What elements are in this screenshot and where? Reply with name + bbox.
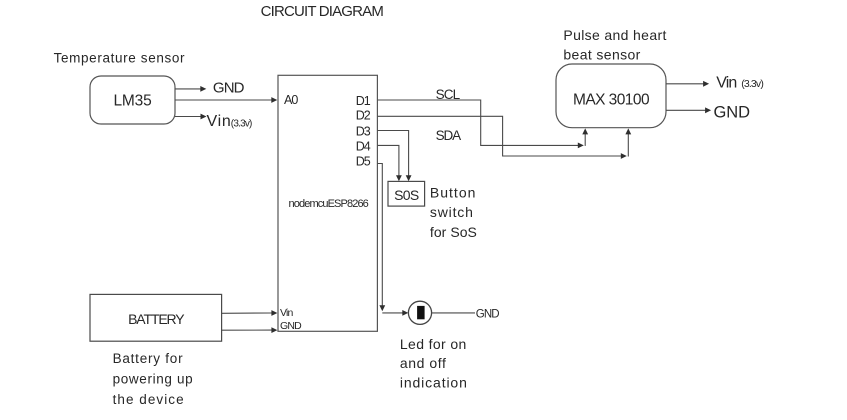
svg-text:A0: A0 bbox=[284, 93, 298, 107]
pin D2 bbox=[356, 108, 371, 122]
svg-text:Button: Button bbox=[430, 185, 477, 201]
svg-text:GND: GND bbox=[280, 320, 302, 332]
label Pulse and heart beat sensor bbox=[563, 27, 666, 62]
svg-text:and off: and off bbox=[400, 355, 447, 371]
mcu nodemcuESP8266 box bbox=[278, 75, 377, 331]
wire D3 to SOS bbox=[377, 131, 411, 182]
label Vin(3.3v) (LM35) bbox=[207, 113, 253, 130]
svg-text:D4: D4 bbox=[356, 139, 371, 153]
wire battery GND bbox=[222, 327, 278, 333]
battery BT1 bbox=[90, 294, 222, 341]
svg-text:Vin: Vin bbox=[207, 113, 232, 130]
svg-text:SCL: SCL bbox=[436, 87, 461, 102]
svg-text:(3.3v): (3.3v) bbox=[741, 78, 763, 90]
svg-text:GND: GND bbox=[213, 79, 245, 96]
wire LED to GND bbox=[432, 312, 475, 314]
pin A0 bbox=[284, 93, 298, 107]
pin D5 bbox=[356, 154, 371, 168]
svg-text:D3: D3 bbox=[356, 124, 371, 138]
svg-text:D2: D2 bbox=[356, 108, 371, 122]
svg-text:Temperature sensor: Temperature sensor bbox=[54, 51, 186, 66]
sensor MAX 30100 bbox=[556, 64, 666, 128]
switch SOS bbox=[388, 181, 425, 206]
svg-text:Vin: Vin bbox=[716, 74, 736, 91]
svg-text:SDA: SDA bbox=[436, 128, 462, 143]
svg-text:Vin: Vin bbox=[280, 307, 293, 319]
wire LM35 to A0 bbox=[175, 97, 277, 103]
wire D2 SDA to MAX30100 bbox=[377, 116, 631, 159]
label nodemcuESP8266 bbox=[289, 198, 369, 210]
svg-text:nodemcuESP8266: nodemcuESP8266 bbox=[289, 198, 369, 210]
label SDA bbox=[436, 128, 462, 143]
svg-text:Pulse and heart: Pulse and heart bbox=[563, 27, 666, 43]
wire MAX30100 Vin bbox=[666, 81, 709, 87]
label Button switch for SoS bbox=[430, 185, 477, 240]
svg-text:powering up: powering up bbox=[113, 372, 194, 387]
svg-text:switch: switch bbox=[430, 204, 474, 220]
svg-text:(3.3v): (3.3v) bbox=[231, 119, 252, 130]
svg-text:the device: the device bbox=[113, 392, 185, 407]
title CIRCUIT DIAGRAM bbox=[261, 3, 384, 20]
svg-text:Battery for: Battery for bbox=[113, 351, 184, 366]
label Battery for powering up the device bbox=[113, 351, 194, 407]
pin D4 bbox=[356, 139, 371, 153]
wire LM35 Vin bbox=[175, 114, 207, 120]
label GND (LED) bbox=[476, 309, 499, 321]
label Vin (3.3v) (MAX30100) bbox=[716, 74, 763, 91]
svg-text:S0S: S0S bbox=[394, 187, 419, 203]
wire D1 SCL to MAX30100 bbox=[377, 100, 588, 148]
pin Vin (mcu) bbox=[280, 307, 293, 319]
label GND (LM35) bbox=[213, 79, 245, 96]
wire D4 to SOS bbox=[377, 145, 401, 181]
svg-text:Led for on: Led for on bbox=[400, 336, 467, 352]
pin D3 bbox=[356, 124, 371, 138]
label Led for on and off indication bbox=[400, 336, 468, 391]
pin GND (mcu) bbox=[280, 320, 302, 332]
label SCL bbox=[436, 87, 461, 102]
svg-text:indication: indication bbox=[400, 375, 468, 391]
wire MAX30100 GND bbox=[666, 107, 711, 113]
svg-text:GND: GND bbox=[714, 104, 751, 122]
svg-text:D1: D1 bbox=[356, 94, 371, 108]
wire battery Vin bbox=[222, 310, 278, 316]
wire D5 to LED bbox=[377, 164, 408, 316]
sensor LM35 bbox=[90, 76, 175, 124]
svg-text:BATTERY: BATTERY bbox=[128, 311, 185, 327]
svg-text:GND: GND bbox=[476, 309, 499, 321]
svg-text:CIRCUIT DIAGRAM: CIRCUIT DIAGRAM bbox=[261, 3, 384, 20]
pin D1 bbox=[356, 94, 371, 108]
svg-text:MAX 30100: MAX 30100 bbox=[573, 91, 650, 108]
led indicator bbox=[408, 301, 431, 324]
svg-text:beat sensor: beat sensor bbox=[563, 46, 640, 62]
svg-text:D5: D5 bbox=[356, 154, 371, 168]
wire LM35 GND bbox=[175, 86, 206, 92]
svg-text:for SoS: for SoS bbox=[430, 224, 477, 240]
svg-text:LM35: LM35 bbox=[113, 93, 151, 110]
label GND (MAX30100) bbox=[714, 104, 751, 122]
label Temperature sensor bbox=[54, 51, 186, 66]
